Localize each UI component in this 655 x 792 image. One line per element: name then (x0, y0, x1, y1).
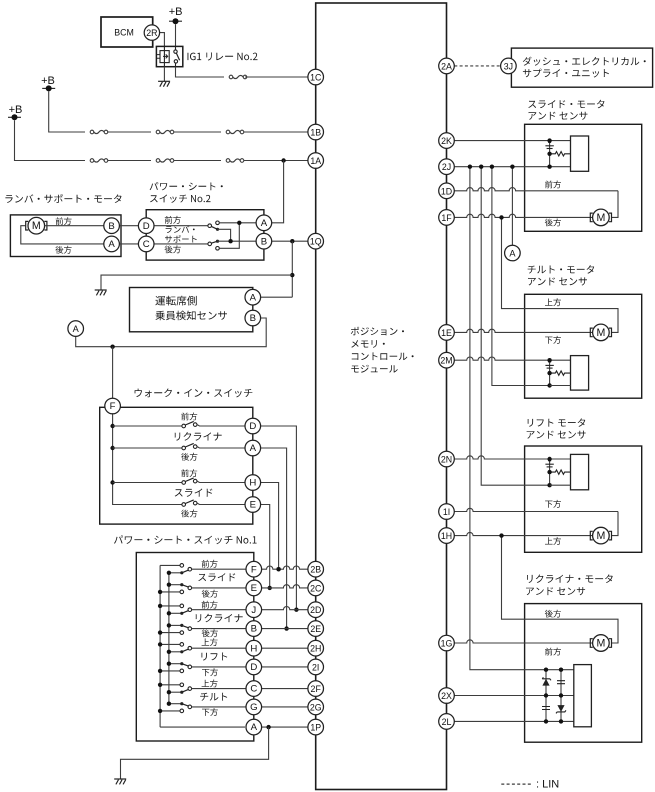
pin D (246, 659, 262, 675)
junction outer bus node 688.6 (158, 683, 162, 687)
label module text line2 (351, 340, 385, 348)
label relay name (188, 53, 258, 61)
label module text line1 (351, 327, 404, 336)
label label 後方 recl (545, 610, 561, 618)
junction E row node wi (268, 586, 272, 590)
wire throw line u609.7 (160, 605, 182, 607)
wire sw2 lower throw to A net (219, 223, 239, 248)
svg-text:2B: 2B (310, 565, 321, 575)
svg-text:C: C (143, 239, 150, 250)
wire outer bus to A row (160, 726, 245, 728)
svg-text:G: G (250, 702, 257, 713)
label module text line3 (352, 352, 414, 360)
pin B (256, 233, 272, 249)
fuse 1C fuse (229, 75, 247, 79)
wire 1B seg4 (244, 131, 316, 133)
svg-text:B: B (250, 313, 256, 324)
svg-text:2R: 2R (146, 28, 157, 38)
position sensor slide sensor (545, 136, 588, 171)
wire +B to 1A row (15, 120, 86, 160)
wire lumbar B row (45, 225, 104, 227)
wire walk-in A to B row (261, 448, 287, 629)
box slide motor and sensor (525, 124, 642, 231)
wire throw line u569.2 (160, 564, 182, 566)
wire +B to 1B row (49, 91, 85, 132)
svg-text:A: A (73, 324, 80, 334)
label label 前方 wi-H (181, 469, 197, 477)
junction 2J node V1 (468, 165, 472, 169)
pin 2J (439, 159, 455, 175)
pin 2D (308, 602, 324, 618)
junction 1H node V5 (499, 533, 503, 537)
wire walk-in bus (113, 414, 182, 505)
wire 1A seg3 (174, 160, 221, 162)
wire lift sensor bottom (550, 484, 571, 486)
motor lumbar M (26, 217, 47, 234)
motor tilt M (590, 324, 611, 341)
label label 前方 s1J (202, 601, 218, 609)
wire walk-in H to F row (261, 483, 279, 570)
svg-text:+B: +B (9, 104, 23, 116)
pin C (138, 236, 154, 252)
label walk-in title (135, 389, 253, 398)
wire fuse to 1C (245, 76, 316, 78)
label switch2 title line1 (150, 182, 223, 190)
box BCM (101, 17, 153, 47)
pin 3J (501, 58, 517, 74)
motor recliner M (590, 635, 611, 652)
pin 1I (439, 504, 455, 520)
wire pivot line u648.2 (169, 651, 182, 653)
junction J row node (294, 608, 298, 612)
svg-text:1G: 1G (441, 639, 453, 649)
label label リクライナ wi (175, 432, 222, 441)
junction inner bus node 587.9 (167, 583, 171, 587)
label label 後方 s1E (202, 590, 218, 598)
switch walk-in D (182, 421, 197, 427)
wire J row (192, 607, 308, 610)
switch sw2 rear (208, 240, 219, 246)
label label 下方 lift (545, 500, 561, 508)
svg-text:A: A (261, 218, 268, 229)
wire pivot line u609.7 (169, 612, 182, 614)
svg-text:1H: 1H (441, 531, 452, 541)
label dash unit line2 (523, 69, 609, 78)
svg-text:+B: +B (41, 75, 55, 87)
svg-text:1C: 1C (310, 73, 322, 83)
pin 2C (308, 580, 324, 596)
wire ground branch (101, 275, 292, 290)
svg-text:1I: 1I (443, 507, 450, 517)
wire feed V3 (492, 167, 550, 386)
wire A row to 1P (262, 726, 308, 728)
wire D row (192, 666, 308, 668)
junction 2J node V2 (479, 165, 483, 169)
label lift title1 (528, 418, 586, 426)
svg-text:1P: 1P (310, 723, 321, 733)
wire 1G row (447, 640, 593, 643)
wire 1F row (447, 214, 593, 217)
wire sensor B wire (76, 318, 267, 347)
svg-text:B: B (261, 236, 267, 247)
pin 1Q (308, 233, 324, 249)
wire bus to H sw (113, 482, 182, 484)
pin 2M (439, 352, 455, 368)
pin B (245, 310, 261, 326)
svg-text:1B: 1B (310, 128, 321, 138)
svg-text:M: M (596, 530, 605, 542)
junction inner bus node 569.2 (167, 571, 171, 575)
junction B row node wi (284, 626, 288, 630)
label label 上方 s1H (202, 638, 218, 646)
LIN dashed wire (454, 65, 500, 67)
pin 1P (308, 719, 324, 735)
svg-text:2C: 2C (310, 583, 322, 593)
wire 2R to relay coil (160, 33, 165, 47)
svg-text:2K: 2K (441, 136, 452, 146)
power +B row 1B supply (41, 75, 55, 92)
label label リクライナ s1 (196, 614, 243, 623)
label label 前方 slide (545, 181, 561, 189)
label tilt title2 (528, 277, 587, 285)
pin A (right connector) (505, 245, 521, 261)
wire throw line l666.9 (160, 670, 182, 672)
svg-text:H: H (249, 478, 256, 489)
label tilt title1 (528, 265, 595, 273)
wire 2X row (447, 695, 574, 697)
switch sw2 front (208, 224, 219, 231)
svg-text:3J: 3J (504, 61, 513, 71)
svg-text:1F: 1F (441, 213, 452, 223)
relay IG1 No.2 (156, 46, 182, 66)
svg-text:M: M (596, 638, 605, 650)
label label 後方 wi-A (181, 453, 197, 461)
label recliner title1 (527, 574, 613, 583)
pin G (246, 699, 262, 715)
junction F row node wi (276, 567, 280, 571)
svg-text:2L: 2L (442, 717, 452, 727)
fuse 1A fuse 3 (226, 159, 244, 163)
switch row 569.2 (180, 564, 192, 575)
label label 後方 s1B (202, 629, 218, 637)
wire recl sensor top row (546, 669, 574, 671)
pin 2E (308, 621, 324, 637)
junction F-2B node (276, 567, 280, 571)
pin B (246, 621, 262, 637)
junction B-1Q node (290, 239, 294, 243)
wire A-C row (119, 243, 207, 245)
pin 2B (308, 561, 324, 577)
throw contact lower (216, 247, 220, 251)
wire feed V1 (470, 167, 546, 670)
svg-text:2A: 2A (441, 61, 452, 71)
wire +B to relay switch (175, 24, 177, 46)
position sensor lift sensor (545, 454, 588, 489)
junction inner bus node 628.6 (167, 623, 171, 627)
wire sw2 A-out (219, 222, 256, 224)
label label 上方 s1C (202, 680, 218, 688)
label label 前方 lumbar (56, 217, 72, 225)
svg-text:2I: 2I (312, 662, 319, 672)
svg-text:2H: 2H (310, 644, 321, 654)
box power seat switch No.1 (136, 553, 254, 742)
pin E (245, 497, 261, 513)
wire feed V5a (502, 217, 619, 332)
junction A net node (237, 221, 241, 225)
label label ランバ・ (166, 226, 195, 233)
hall sensor network recliner (542, 665, 591, 727)
label label 前方 sw2 (165, 216, 181, 224)
wire bus to A sw (113, 447, 182, 449)
wire 2K row (447, 140, 571, 142)
svg-text:A: A (251, 722, 258, 733)
label lumbar title (5, 194, 121, 203)
svg-text:A: A (250, 443, 257, 454)
junction 2J node V4 (510, 165, 514, 169)
ground occupant sensor ground (95, 290, 107, 295)
fuse 1A fuse 2 (156, 159, 174, 163)
pin J (246, 602, 262, 618)
box occupant detection sensor (130, 288, 253, 332)
switch row 666.9 (180, 662, 192, 673)
svg-text:1A: 1A (310, 156, 321, 166)
junction ground branch node (290, 273, 294, 277)
label label 後方 wi-E (181, 510, 197, 518)
label recliner title2 (526, 587, 585, 595)
wire 1A seg2 (108, 160, 151, 162)
junction inner bus node 666.9 (167, 662, 171, 666)
svg-text:M: M (32, 220, 41, 232)
wire A row to ground (121, 727, 269, 779)
wire walk-in H out (197, 481, 245, 482)
position sensor tilt sensor (545, 356, 588, 391)
label lift title2 (527, 431, 586, 439)
svg-text:1E: 1E (441, 328, 452, 338)
wire walk-in D to J row (261, 426, 297, 610)
junction walk-in feed node (110, 345, 114, 349)
svg-text:C: C (250, 684, 257, 695)
motor slide M (590, 209, 611, 226)
pin H (245, 475, 261, 491)
junction outer bus node 706.9 (158, 709, 162, 713)
wire 1E row (447, 329, 593, 332)
wire 1B seg2 (108, 131, 151, 133)
wire B net down (291, 241, 293, 297)
junction bus node A (110, 446, 114, 450)
svg-text:2J: 2J (442, 162, 451, 172)
wire 1D to motor (612, 191, 618, 218)
wire feed V2 (481, 167, 549, 486)
wire bus to D sw (113, 425, 182, 427)
junction outer bus node 648.2 (158, 642, 162, 646)
box dash electrical supply unit (511, 48, 652, 87)
wire walk-in D out (197, 425, 245, 426)
svg-text:2X: 2X (441, 691, 452, 701)
pin C (246, 681, 262, 697)
wire walk-in A out (197, 447, 245, 448)
label label 乗員検知センサ (155, 311, 227, 321)
svg-text:B: B (251, 624, 257, 635)
pin 1F (439, 210, 455, 226)
junction inner bus node 706.9 (167, 702, 171, 706)
pin 1D (439, 183, 455, 199)
svg-text:D: D (143, 221, 150, 232)
box position memory control module (316, 3, 447, 790)
pin 2I (308, 659, 324, 675)
power +B relay supply (169, 6, 183, 24)
box lumbar support motor (10, 215, 121, 257)
fuse 1B fuse 2 (156, 130, 174, 134)
junction outer bus node 628.6 (158, 630, 162, 634)
wire G row (192, 706, 308, 708)
legend LIN (501, 778, 559, 790)
label switch2 title line2 (150, 195, 211, 203)
pin 2N (439, 451, 455, 467)
svg-text:2D: 2D (310, 605, 321, 615)
power +B row 1A supply (8, 104, 22, 120)
svg-text:2M: 2M (440, 356, 452, 366)
wire 2M row (447, 357, 571, 360)
ground relay ground (158, 81, 170, 86)
wire pivot line l628.6 (169, 624, 182, 626)
label label 後方 sw2 (165, 245, 181, 253)
svg-text:+B: +B (169, 6, 183, 18)
wire throw line l628.6 (160, 632, 182, 634)
pin 2G (308, 699, 324, 715)
wire B out to 1Q (272, 240, 316, 242)
switch row 609.7 (180, 604, 192, 615)
wire throw line u648.2 (160, 643, 182, 645)
pin A (104, 236, 120, 252)
pin A (246, 719, 262, 735)
svg-text:D: D (250, 662, 257, 673)
box recliner motor and sensor (525, 604, 642, 743)
junction B row node (228, 239, 232, 243)
pin 2L (439, 714, 455, 730)
label label 下方 s1D (202, 668, 218, 676)
junction 1F node V5 (499, 215, 503, 219)
switch row 587.9 (180, 583, 192, 594)
pin 1C (308, 69, 324, 85)
switch row 706.9 (180, 702, 192, 713)
junction outer bus node 587.9 (158, 590, 162, 594)
pin 1A (308, 153, 324, 169)
wire walk-in E to E row (261, 505, 270, 588)
wire throw line l706.9 (160, 710, 182, 712)
svg-text:2G: 2G (310, 702, 322, 712)
svg-text:E: E (250, 500, 256, 511)
wire throw line u688.6 (160, 684, 182, 686)
wire E row (192, 585, 308, 588)
pin 1B (308, 124, 324, 140)
box power seat switch No.2 (146, 210, 264, 260)
pin 2H (308, 640, 324, 656)
pin A (245, 289, 261, 305)
pin H (246, 640, 262, 656)
pin D (245, 418, 261, 434)
wire sensor A wire (253, 296, 292, 298)
svg-text:BCM: BCM (114, 28, 134, 38)
pin A (256, 215, 272, 231)
junction outer bus node 666.9 (158, 669, 162, 673)
pin 2F (308, 681, 324, 697)
svg-text:2N: 2N (441, 455, 452, 465)
wire relay to 1C (left) (176, 67, 225, 77)
svg-text:A: A (250, 292, 257, 303)
junction 1A row node (281, 158, 285, 162)
wire 1B seg3 (174, 131, 221, 133)
label label 後方 lumbar (55, 246, 71, 254)
box walk-in switch (100, 407, 253, 524)
label label 上方 lift (545, 537, 561, 545)
ground seat switch ground (114, 779, 126, 784)
svg-text:1D: 1D (441, 186, 452, 196)
svg-text:1Q: 1Q (310, 237, 322, 247)
svg-text:A: A (108, 239, 115, 250)
svg-text:F: F (110, 401, 116, 412)
wire F row (192, 566, 308, 569)
wire inner bus (168, 573, 170, 704)
label label 前方 wi-D (181, 413, 197, 421)
wire 1D row (447, 188, 619, 191)
wire 1I to motor (612, 512, 618, 536)
pin E (246, 580, 262, 596)
pin F (246, 561, 262, 577)
wire pivot line l706.9 (169, 703, 182, 705)
svg-text:H: H (250, 643, 257, 654)
wire feed V4 (511, 167, 513, 246)
wire relay coil to ground (163, 67, 165, 82)
label dash unit line1 (523, 57, 646, 66)
wire 1I row (447, 508, 619, 511)
junction outer bus node 609.7 (158, 604, 162, 608)
fuse 1B fuse 1 (90, 130, 108, 134)
switch row 648.2 (180, 643, 192, 654)
wire 1H row (447, 532, 593, 535)
wire feed to walk-in F (112, 347, 114, 399)
wire tilt sensor bottom (550, 385, 571, 387)
svg-text:: LIN: : LIN (536, 778, 559, 790)
pin F (105, 398, 121, 414)
wire sw2 B row (218, 240, 257, 242)
wire pivot line l587.9 (169, 584, 182, 586)
wire A out to 1A row (272, 161, 284, 223)
label label 前方 recl (545, 648, 561, 656)
label label 前方 s1F (202, 560, 218, 568)
svg-text:J: J (251, 605, 256, 616)
svg-text:D: D (249, 421, 256, 432)
junction A row ground node (266, 725, 270, 729)
svg-text:F: F (251, 564, 257, 575)
wire B-D row (119, 225, 207, 227)
switch walk-in E (182, 500, 197, 506)
label module text line4 (351, 365, 397, 373)
label label 後方 slide (545, 219, 561, 227)
svg-text:M: M (596, 212, 605, 224)
junction bus node D (110, 424, 114, 428)
wire tilt 上方 wire tail (617, 308, 619, 310)
wire feed V5b (502, 536, 619, 643)
wire 2J row (447, 166, 571, 168)
fuse 1B fuse 3 (226, 130, 244, 134)
junction 2J node V3 (490, 165, 494, 169)
switch row 628.6 (180, 624, 192, 635)
switch walk-in A (182, 443, 197, 449)
junction bus node H (110, 480, 114, 484)
pin 2A (439, 58, 455, 74)
pin A (245, 440, 261, 456)
motor lift M (590, 527, 611, 544)
